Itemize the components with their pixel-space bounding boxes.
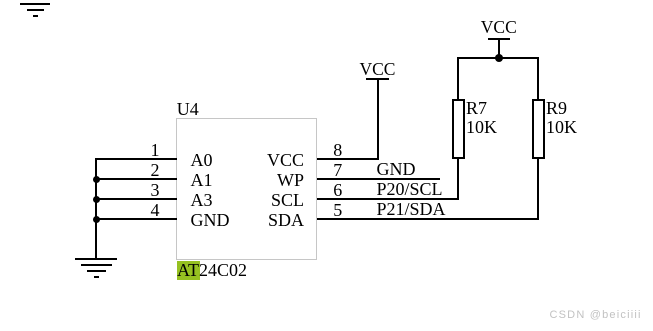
pin name A1 (191, 171, 213, 189)
pin number 2 (140, 161, 160, 179)
wire R7 top lead (457, 58, 459, 99)
power VCC bar (rail) (488, 38, 510, 40)
resistor R9 (532, 99, 545, 159)
wire R9 top lead (537, 58, 539, 99)
pin name WP (224, 171, 304, 189)
value label AT24C02 highlight (177, 261, 200, 280)
pin name GND (191, 211, 230, 229)
node pin4 junction (93, 216, 100, 223)
value label AT24C02 (177, 261, 247, 279)
net label P21/SDA (377, 200, 446, 218)
wire left bus (95, 158, 97, 260)
label U4 (177, 100, 199, 118)
pin number 8 (333, 141, 342, 159)
pin name SCL (224, 191, 304, 209)
wire pin6 SCL net (317, 198, 460, 200)
watermark (550, 310, 642, 321)
power VCC label (rail) (481, 19, 517, 37)
pin name A0 (191, 151, 213, 169)
node VCC rail junction (495, 54, 503, 62)
wire R9 bottom lead (537, 158, 539, 220)
resistor R7 value 10K (466, 118, 497, 136)
ground (top-left, clipped) (20, 3, 50, 5)
power VCC label (pin8) (360, 61, 396, 79)
net label P20/SCL (377, 180, 443, 198)
wire pin7 GND net (317, 178, 440, 180)
wire pin2 (95, 178, 177, 180)
resistor R9 label (546, 99, 567, 117)
wire pin4 (95, 218, 177, 220)
pin number 3 (140, 181, 160, 199)
pin name SDA (224, 211, 304, 229)
pin number 4 (140, 201, 160, 219)
pin name A3 (191, 191, 213, 209)
power VCC bar (pin8) (366, 78, 389, 80)
wire pin8 (317, 158, 380, 160)
wire VCC riser (498, 39, 500, 58)
ground (bottom-left) (75, 258, 117, 260)
resistor R9 value 10K (546, 118, 577, 136)
pin number 1 (140, 141, 160, 159)
net label GND (377, 160, 416, 178)
wire R7 bottom lead (457, 158, 459, 200)
resistor R7 (452, 99, 465, 159)
resistor R7 label (466, 99, 487, 117)
IC U4 body (176, 118, 317, 260)
wire pin3 (95, 198, 177, 200)
pin name VCC (224, 151, 304, 169)
pin number 7 (333, 161, 342, 179)
wire pin8 riser (377, 79, 379, 160)
pin number 5 (333, 201, 342, 219)
pin number 6 (333, 181, 342, 199)
node pin3 junction (93, 196, 100, 203)
wire pin1 (95, 158, 177, 160)
node pin2 junction (93, 176, 100, 183)
wire top rail (457, 57, 539, 59)
wire pin5 SDA net (317, 218, 540, 220)
